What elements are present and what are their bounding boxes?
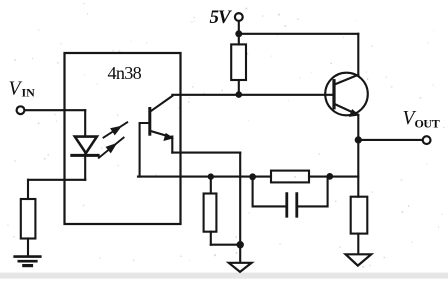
wire VOUT node down to R4 [357,140,359,197]
terminal VOUT [423,136,431,144]
opto collector lead [150,96,173,112]
wire R4 to ground [357,234,359,254]
terminal 5V [235,13,243,21]
capacitor C1 branch left [253,177,287,207]
junction dot base node [236,91,243,98]
LED D1 anode lead [84,110,86,155]
junction dot R3 top [208,173,214,179]
light arrow 2 [99,138,124,158]
transistor Q1 emitter lead with arrow [335,104,359,116]
junction dot VOUT node [355,136,362,143]
svg-text:V: V [9,79,23,100]
wire LED cathode down [84,155,86,179]
LED D1 triangle [75,137,97,154]
terminal VIN [17,106,25,114]
svg-text:IN: IN [22,86,36,100]
opto emitter lead with arrow [150,131,172,140]
junction dot RC right [326,173,333,180]
wire collector drop [357,34,359,75]
optocoupler U1 body [65,53,181,224]
capacitor C1 branch right [297,176,328,206]
transistor Q1 circle [325,73,368,116]
wire 5V rail to collector drop [239,33,358,35]
wire emitter ground drop [239,153,241,245]
junction dot ground node [237,241,244,248]
wire R2 to ground [27,239,29,256]
transistor Q1 collector lead [335,75,359,85]
light arrow 1 [104,122,128,137]
junction dot below 5V [235,30,242,37]
wire R3 bottom to ground node [211,244,240,246]
resistor R3 [204,177,217,245]
ground G3 [346,254,372,265]
ground G2 [229,263,252,272]
junction dot RC left [249,173,256,180]
wire opto collector to Q1 base [172,94,334,96]
wire lower net left [138,176,271,178]
resistor R5 horizontal [271,171,309,183]
svg-text:4n38: 4n38 [108,63,142,83]
transistor Q1 base bar [332,81,335,108]
svg-text:5V: 5V [210,7,233,28]
LED D1 cathode bar [72,154,98,157]
wire down to ground G2 [239,245,241,263]
wire to VOUT terminal [358,139,422,141]
wire VIN to LED anode [25,109,85,111]
wire down to R2 [27,180,29,199]
ground earth G1 [15,257,41,266]
svg-text:OUT: OUT [415,117,440,131]
wire opto emitter to ground drop [172,152,240,154]
capacitor C1 plates [287,194,297,217]
wire 5V terminal to junction [238,21,240,31]
wire cathode to R2 [28,179,85,181]
opto phototransistor base bar [148,109,151,135]
resistor R4 [351,197,368,234]
wire Q1 emitter down [357,115,359,140]
resistor R1 pull-up [231,36,246,92]
opto base lead [140,123,148,177]
wire lower net right [309,176,358,178]
wire opto emitter drop [171,137,173,153]
resistor R2 [21,199,36,239]
